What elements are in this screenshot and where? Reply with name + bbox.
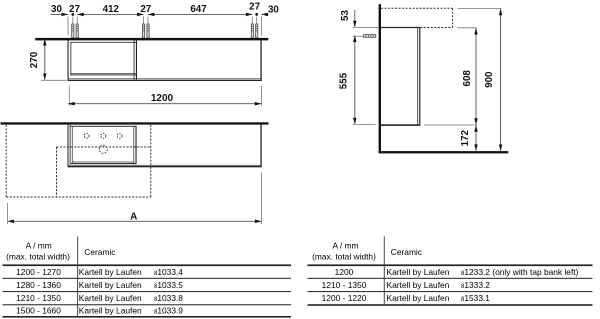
svg-text:Ceramic: Ceramic xyxy=(391,247,422,257)
svg-text:Kartell by Laufen: Kartell by Laufen xyxy=(79,267,142,277)
svg-text:Kartell by Laufen: Kartell by Laufen xyxy=(387,280,450,290)
ceramic variant dashed vertical xyxy=(56,147,58,197)
svg-text:81033.4: 81033.4 xyxy=(154,267,183,277)
svg-text:Kartell by Laufen: Kartell by Laufen xyxy=(79,280,142,290)
dimension 53 xyxy=(354,10,356,27)
ceramic outline dashed bottom xyxy=(6,196,151,198)
svg-text:270: 270 xyxy=(29,51,40,68)
dimension 555 xyxy=(354,36,356,125)
side view tap extension line xyxy=(353,35,364,37)
left table row line 3 xyxy=(3,304,292,305)
side view cabinet top xyxy=(381,27,420,28)
plan view cabinet right edge xyxy=(260,125,261,167)
svg-text:A / mm: A / mm xyxy=(332,241,358,251)
svg-text:1200 - 1220: 1200 - 1220 xyxy=(322,293,367,303)
plan view basin box right double edge xyxy=(132,126,135,164)
tap hole right xyxy=(117,133,122,138)
front view cabinet bottom outer line xyxy=(68,80,262,81)
svg-text:81233.2 (only with tap bank le: 81233.2 (only with tap bank left) xyxy=(461,267,579,277)
right table header underline xyxy=(308,264,593,266)
svg-text:1210 - 1350: 1210 - 1350 xyxy=(16,293,61,303)
svg-text:Kartell by Laufen: Kartell by Laufen xyxy=(79,306,142,316)
side view countertop dashed top xyxy=(381,7,453,9)
left table bottom line xyxy=(3,316,292,318)
side view countertop dashed bottom xyxy=(420,27,452,29)
svg-text:555: 555 xyxy=(339,72,350,89)
svg-text:(max. total width): (max. total width) xyxy=(312,251,376,261)
svg-text:A: A xyxy=(130,212,137,223)
left table row line 2 xyxy=(3,291,292,292)
tap hole left xyxy=(84,133,89,138)
left table column divider xyxy=(76,237,79,317)
dimension A xyxy=(7,203,9,224)
side view cabinet door double edge xyxy=(416,28,419,126)
wall bracket pair 1 xyxy=(72,24,79,38)
plan view basin box left inner xyxy=(71,127,74,163)
top dimension line segments xyxy=(51,13,69,15)
right table column divider xyxy=(383,237,386,306)
svg-text:30: 30 xyxy=(268,4,279,15)
side view tap symbol xyxy=(364,35,376,38)
front view countertop xyxy=(35,38,268,41)
plan view cabinet bottom double line xyxy=(68,164,262,167)
plan view cabinet left double edge xyxy=(68,125,69,167)
svg-text:1200 - 1270: 1200 - 1270 xyxy=(16,267,61,277)
front view division double line xyxy=(133,40,136,79)
svg-text:1200: 1200 xyxy=(335,267,354,277)
left table row line 1 xyxy=(3,278,292,279)
svg-text:1500 - 1660: 1500 - 1660 xyxy=(16,306,61,316)
svg-text:81033.5: 81033.5 xyxy=(154,280,183,290)
svg-text:647: 647 xyxy=(190,4,207,15)
side view countertop dashed right xyxy=(452,8,454,27)
dimension 608 xyxy=(457,27,477,29)
svg-text:412: 412 xyxy=(103,4,120,15)
svg-text:Kartell by Laufen: Kartell by Laufen xyxy=(387,267,450,277)
dimension 1200 xyxy=(68,86,70,106)
svg-text:81033.9: 81033.9 xyxy=(154,306,183,316)
front view cabinet left edge xyxy=(68,40,69,80)
ceramic outline dashed right xyxy=(150,125,152,197)
front view cabinet bottom inner line xyxy=(68,77,262,80)
dimension 900 xyxy=(458,7,502,9)
side view cabinet bottom xyxy=(381,124,420,126)
dimension 172 xyxy=(475,125,477,151)
right table bottom line xyxy=(308,304,593,306)
top extension lines xyxy=(67,17,69,36)
svg-text:27: 27 xyxy=(69,4,80,15)
svg-text:172: 172 xyxy=(460,129,471,146)
svg-text:900: 900 xyxy=(484,71,495,88)
svg-text:30: 30 xyxy=(51,4,62,15)
svg-text:81333.2: 81333.2 xyxy=(461,280,490,290)
dimension 270 xyxy=(44,39,46,80)
ceramic variant dashed horizontal xyxy=(57,146,151,148)
svg-text:A / mm: A / mm xyxy=(26,241,52,251)
plan view wall line xyxy=(1,122,269,124)
svg-text:1200: 1200 xyxy=(151,93,174,104)
svg-text:Kartell by Laufen: Kartell by Laufen xyxy=(387,293,450,303)
wall bracket pair 3 xyxy=(251,24,258,38)
svg-text:81533.1: 81533.1 xyxy=(461,293,490,303)
top dimension dots xyxy=(71,13,74,16)
side view floor xyxy=(379,151,509,153)
svg-text:Kartell by Laufen: Kartell by Laufen xyxy=(79,293,142,303)
svg-text:608: 608 xyxy=(462,70,473,87)
front view cabinet right edge xyxy=(260,40,261,80)
left table header underline xyxy=(3,264,292,266)
right table row line 1 xyxy=(308,278,593,279)
plan view basin box top xyxy=(71,126,137,127)
svg-text:27: 27 xyxy=(249,2,260,13)
svg-text:81033.8: 81033.8 xyxy=(154,293,183,303)
plan view basin box bottom double line xyxy=(72,161,134,164)
side view wall xyxy=(379,4,381,153)
right table row line 2 xyxy=(308,291,593,292)
svg-text:Ceramic: Ceramic xyxy=(84,247,115,257)
top dimension arrows xyxy=(62,13,69,17)
front view basin unit bottom double line xyxy=(70,72,136,75)
front view basin unit top line xyxy=(70,41,136,44)
svg-text:(max. total width): (max. total width) xyxy=(6,251,70,261)
svg-text:53: 53 xyxy=(340,10,351,21)
svg-text:1280 - 1360: 1280 - 1360 xyxy=(16,280,61,290)
ceramic outline dashed left xyxy=(5,125,7,197)
tap hole middle xyxy=(101,133,106,138)
drain hole xyxy=(99,145,107,153)
wall bracket pair 2 xyxy=(143,24,150,38)
front view cabinet left inner edge xyxy=(69,42,72,75)
svg-text:27: 27 xyxy=(140,4,151,15)
svg-text:1210 - 1350: 1210 - 1350 xyxy=(322,280,367,290)
